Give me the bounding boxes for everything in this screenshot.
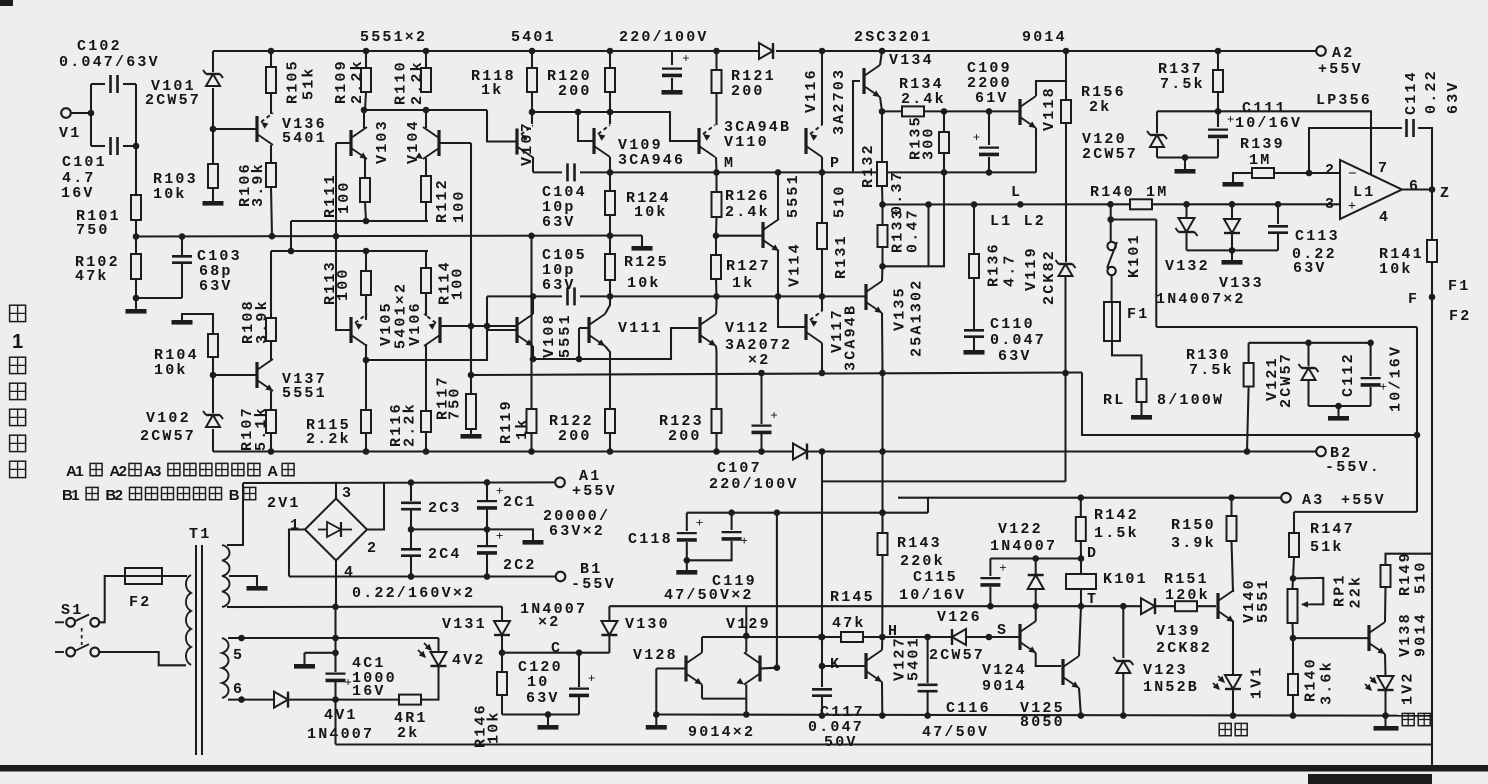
svg-text:R149: R149 <box>1397 551 1414 596</box>
junction 1V2 rail <box>1382 712 1389 719</box>
wire y497 corner <box>898 498 928 513</box>
svg-text:V112: V112 <box>725 320 770 337</box>
wire C103 bottom lead <box>181 263 183 298</box>
svg-text:+: + <box>496 528 503 543</box>
junction V108 emitter <box>530 356 537 363</box>
wire F1 to RL <box>1112 341 1142 379</box>
wire C118 bottom lead <box>686 542 688 560</box>
wire V103 base riser <box>336 143 350 330</box>
transistor V129 <box>737 653 761 685</box>
wire V122 bottom lead <box>1035 589 1037 606</box>
junction V114 emitter <box>775 293 782 300</box>
label R131 <box>833 234 850 279</box>
junction 2C2 bottom <box>484 573 491 580</box>
capacitor C103 <box>172 256 192 262</box>
label R106 <box>237 162 254 207</box>
svg-text:+: + <box>1379 379 1386 394</box>
wire R137 bottom <box>1217 92 1219 111</box>
svg-text:V138: V138 <box>1397 612 1414 657</box>
label pin6 <box>233 681 244 698</box>
label 2C2 <box>503 557 537 574</box>
wire R115 top <box>365 360 367 410</box>
label 2C4 <box>428 546 462 563</box>
label 63V C105 <box>542 277 576 294</box>
wire pin6 right <box>288 699 336 701</box>
label 2C3 <box>428 500 462 517</box>
label 9014x2 <box>688 724 755 741</box>
wire R117 gnd lead <box>470 429 472 434</box>
capacitor C119 <box>722 532 748 548</box>
junction V133 bottom <box>1229 247 1236 254</box>
terminal B2 <box>1316 447 1326 457</box>
label 2.4k R126 <box>725 204 770 221</box>
wire sub gnd stem <box>1337 406 1339 416</box>
switch S1 contact b1 <box>66 648 75 657</box>
junction K101coil top <box>1078 555 1085 562</box>
transistor V140 <box>1218 590 1234 622</box>
label H <box>888 623 899 640</box>
wire RP1 wiper loop <box>1293 578 1323 605</box>
resistor R139 <box>1252 168 1274 178</box>
junction V1 node <box>88 110 95 117</box>
svg-text:2k: 2k <box>397 725 419 742</box>
svg-text:R125: R125 <box>624 254 669 271</box>
junction x578 y112 <box>575 109 582 116</box>
wire V106 collector <box>425 293 427 316</box>
label 8/100W <box>1157 392 1224 409</box>
coil T1 secondary lower <box>222 638 229 698</box>
svg-text:V129: V129 <box>726 616 771 633</box>
label 5401 top <box>511 29 556 46</box>
label 47k <box>75 268 109 285</box>
label 63V C113 <box>1293 260 1327 277</box>
capacitor 2C4 <box>401 549 421 555</box>
resistor R114 <box>421 268 431 293</box>
svg-text:LP356: LP356 <box>1316 92 1372 109</box>
svg-text:2CK82: 2CK82 <box>1041 249 1058 305</box>
svg-text:V132: V132 <box>1165 258 1210 275</box>
label R105 <box>285 59 302 104</box>
wire base node to V137 <box>213 374 256 376</box>
svg-text:−: − <box>1348 166 1357 182</box>
resistor R122 <box>605 409 615 433</box>
wire V128 base <box>656 667 685 669</box>
svg-text:RL: RL <box>1103 392 1125 409</box>
junction x882 B rail <box>879 448 886 455</box>
svg-text:V1: V1 <box>59 125 81 142</box>
junction V121 top <box>1305 340 1312 347</box>
junction C116 rail <box>924 712 931 719</box>
resistor R106 <box>266 163 276 187</box>
svg-text:120k: 120k <box>1165 587 1210 604</box>
label 2CW57 V121 <box>1278 352 1295 408</box>
wire V114 collector riser <box>777 172 779 219</box>
junction V108 collector <box>530 293 537 300</box>
wire V105 collector <box>365 295 367 316</box>
wire diode bus y250 <box>1187 249 1279 251</box>
label pin2 2V1 <box>367 540 378 557</box>
label V131 <box>442 616 487 633</box>
fuse F2 <box>125 568 162 584</box>
svg-text:V108: V108 <box>541 313 558 358</box>
svg-text:2.2k: 2.2k <box>349 59 366 104</box>
label V136 <box>282 116 327 133</box>
junction gnd C120 <box>545 711 552 718</box>
junction R115 B rail <box>363 448 370 455</box>
svg-text:R139: R139 <box>1240 136 1285 153</box>
wire sec bus y607 <box>243 606 502 608</box>
label Z <box>1440 185 1451 202</box>
junction 2C1 top <box>484 479 491 486</box>
wire R147 feed <box>1294 511 1417 513</box>
wire V111 emitter <box>605 346 610 409</box>
svg-text:V106: V106 <box>407 301 424 346</box>
wire 2C4 top lead <box>410 529 412 548</box>
label V112 <box>725 320 770 337</box>
label V106 <box>407 301 424 346</box>
svg-text:2V1: 2V1 <box>267 495 301 512</box>
junction fb R119 <box>528 233 535 240</box>
wire F vertical lower <box>1431 554 1433 765</box>
wire x822 long vertical <box>821 452 823 688</box>
capacitor C102 <box>111 75 118 93</box>
wire x335 seg3 <box>334 700 336 745</box>
label x2 V131 <box>538 614 560 631</box>
svg-text:51k: 51k <box>1310 539 1344 556</box>
label 8050 V125 <box>1020 714 1065 731</box>
label F1 net <box>1448 278 1470 295</box>
label L1 opamp <box>1353 184 1375 201</box>
resistor R133 <box>878 225 888 247</box>
capacitor C120 <box>569 671 595 696</box>
wire V137 emitter to R107 <box>270 391 272 410</box>
wire V127 emitter <box>881 682 883 716</box>
junction 2C4 bottom <box>408 573 415 580</box>
svg-text:L1 L2: L1 L2 <box>990 213 1046 230</box>
junction R121 rail <box>713 48 720 55</box>
svg-text:R151: R151 <box>1164 571 1209 588</box>
wire V108 base bus <box>487 329 516 331</box>
zener V120 <box>1147 131 1167 147</box>
svg-text:+: + <box>696 515 703 530</box>
wire R147 bottom lead <box>1293 557 1294 578</box>
junction V134 emitter <box>879 108 886 115</box>
label V135 <box>892 286 909 331</box>
wire V129 base <box>761 667 777 670</box>
junction V129 base <box>774 664 781 671</box>
label F2 net <box>1449 308 1471 325</box>
svg-text:R145: R145 <box>830 589 875 606</box>
label +55V A3 <box>1341 492 1386 509</box>
wire L bus <box>883 203 1131 205</box>
wire H bus left <box>821 636 841 638</box>
label 4V1 <box>324 707 358 724</box>
transistor V105 <box>351 314 367 346</box>
junction V111 base riser <box>576 356 583 363</box>
diode V133 <box>1224 219 1240 233</box>
junction x471 rail <box>468 372 475 379</box>
capacitor 4C1 <box>326 674 352 690</box>
junction x777 top <box>774 509 781 516</box>
label 1N4007 4V1 <box>307 726 374 743</box>
wire top +55V rail left segment <box>213 50 759 52</box>
op-amp L1 <box>1340 160 1402 219</box>
wire 2C3 top lead <box>410 483 412 501</box>
svg-text:5551: 5551 <box>1255 578 1272 623</box>
wire S1b to primary <box>99 652 186 665</box>
label RL <box>1103 392 1125 409</box>
wire C101/C102 left vertical <box>90 84 92 146</box>
ground V128 <box>646 725 667 730</box>
wire bus y172 left <box>533 171 562 173</box>
svg-text:+55V: +55V <box>572 483 617 500</box>
label T <box>1087 591 1098 608</box>
zener V101 <box>203 70 223 86</box>
light arrows 4V2 <box>418 643 432 658</box>
label 2CW57 V126 <box>929 647 985 664</box>
label 10k R124 <box>634 204 668 221</box>
svg-text:47/50V×2: 47/50V×2 <box>664 587 754 604</box>
label 10/16V C112 <box>1388 345 1405 412</box>
label 4C1 <box>352 655 386 672</box>
coil T1 secondary upper <box>222 545 230 607</box>
junction y251 link <box>288 248 295 255</box>
svg-text:V103: V103 <box>374 119 391 164</box>
junction base bus x487 <box>484 323 491 330</box>
junction V120 gnd node <box>1182 154 1189 161</box>
svg-text:200: 200 <box>558 428 592 445</box>
label 200 R121 <box>731 83 765 100</box>
junction mid node right <box>484 526 491 533</box>
junction fb R106 <box>269 233 276 240</box>
label 120k R151 <box>1165 587 1210 604</box>
label 1k R118 <box>481 82 503 99</box>
capacitor C115 <box>980 560 1006 585</box>
label V132 <box>1165 258 1210 275</box>
wire R141 to F <box>1431 262 1433 297</box>
label 63V C120 <box>526 690 560 707</box>
resistor R130 <box>1244 363 1254 387</box>
resistor R156 <box>1061 100 1071 123</box>
junction C116 top <box>924 634 931 641</box>
label 51k <box>301 66 318 100</box>
svg-text:2.2k: 2.2k <box>306 431 351 448</box>
ground 1V2 <box>1374 726 1399 731</box>
svg-text:47k: 47k <box>832 615 866 632</box>
wire bridge pin4 drop <box>335 561 337 608</box>
label V110 <box>724 134 769 151</box>
svg-text:5401: 5401 <box>282 130 327 147</box>
svg-text:R136: R136 <box>986 242 1003 287</box>
svg-text:5: 5 <box>233 647 244 664</box>
svg-text:+: + <box>344 674 351 689</box>
label 0.22 C114 <box>1423 69 1440 114</box>
wire R133 top lead <box>881 205 883 226</box>
wire C120 bottom lead <box>578 697 580 715</box>
zener V121 <box>1299 364 1319 380</box>
wire R139 right lead <box>1274 172 1309 174</box>
label 5.1k <box>253 406 270 451</box>
capacitor C109 <box>973 130 999 155</box>
wire R126 bottom <box>715 217 718 236</box>
label R124 <box>626 190 671 207</box>
ground C120 <box>538 725 559 730</box>
label C104 <box>542 184 587 201</box>
label V117 <box>829 308 846 353</box>
label 10k R141 <box>1379 261 1413 278</box>
svg-text:2: 2 <box>115 487 123 504</box>
svg-text:+: + <box>588 671 595 686</box>
resistor R137 <box>1213 70 1223 92</box>
svg-text:F2: F2 <box>129 594 151 611</box>
label B2 <box>1330 445 1352 462</box>
wire R143 bottom lead <box>881 555 883 637</box>
capacitor C110 <box>964 330 984 336</box>
wire R156 top <box>1065 51 1067 100</box>
svg-text:V119: V119 <box>1023 246 1040 291</box>
label C109 <box>967 60 1012 77</box>
svg-text:Z: Z <box>1440 185 1451 202</box>
svg-text:0.22: 0.22 <box>1423 69 1440 114</box>
wire C116 top lead <box>927 637 929 683</box>
svg-text:9014: 9014 <box>982 678 1027 695</box>
svg-text:4: 4 <box>1379 209 1390 226</box>
label C107 <box>717 460 762 477</box>
wire R126 top <box>715 172 717 192</box>
wire x1065 lower <box>1064 276 1066 373</box>
transistor V135 <box>866 281 882 313</box>
resistor R134 <box>902 106 924 116</box>
wire gnd stem x304 <box>303 653 305 664</box>
switch S1 link dashed <box>81 628 83 645</box>
wire RP1 bottom lead <box>1291 623 1294 638</box>
wire C120 bus bottom <box>502 713 579 715</box>
junction 1V1 rail <box>1230 712 1237 719</box>
resistor R140 <box>1130 199 1152 209</box>
svg-text:63V: 63V <box>526 690 560 707</box>
wire R116 top <box>425 360 427 411</box>
junction C109 bottom <box>986 169 993 176</box>
svg-text:A: A <box>267 463 278 480</box>
svg-text:10k: 10k <box>627 275 661 292</box>
wire R147 top lead <box>1293 512 1295 533</box>
wire gnd node to C103 bottom <box>136 297 182 299</box>
junction R127/V112 <box>713 293 720 300</box>
wire right vertical C102-C101 <box>135 84 137 146</box>
wire V134 collector <box>880 51 882 65</box>
wire C102 top left <box>91 83 105 85</box>
wire R114 to V106 <box>425 293 427 316</box>
wire R132 bottom <box>881 186 884 205</box>
ground V120 <box>1175 169 1196 174</box>
wire R115 bottom <box>365 433 367 452</box>
junction V116 emitter P <box>819 169 826 176</box>
wire V128 emitter <box>701 685 703 699</box>
svg-text:1N52B: 1N52B <box>1143 679 1199 696</box>
label 0.37 <box>889 170 906 215</box>
resistor R103 <box>208 164 218 188</box>
label 100 R111 <box>336 180 353 214</box>
junction K101coil bottom <box>1078 603 1085 610</box>
svg-text:F2: F2 <box>1449 308 1471 325</box>
terminal A3 <box>1281 493 1291 503</box>
wire A wire y481 <box>822 480 1066 482</box>
wire V120 top lead <box>1156 111 1158 133</box>
wire R130 top lead <box>1248 343 1250 363</box>
wire V102 to B rail <box>212 429 214 452</box>
wire R142 top lead <box>1080 498 1082 517</box>
junction x532 y112 <box>529 109 536 116</box>
svg-text:1V2: 1V2 <box>1400 671 1417 705</box>
wire V101 to base node <box>212 88 214 129</box>
junction C109 top <box>986 108 993 115</box>
junction V125 rail <box>1078 712 1085 719</box>
light arrows 1V2 <box>1365 677 1377 691</box>
switch S1 stub b <box>55 651 64 653</box>
junction V114 collector <box>775 169 782 176</box>
junction pin2 node <box>1306 170 1313 177</box>
label R141 <box>1379 246 1424 263</box>
capacitor C106 <box>662 51 690 76</box>
resistor R109 <box>361 68 371 92</box>
wire R130 bottom lead <box>1247 387 1249 452</box>
switch K101 arm <box>1107 242 1117 268</box>
wire V110 emitter <box>715 157 718 172</box>
wire V140 emitter <box>1232 622 1234 675</box>
svg-text:V139: V139 <box>1156 623 1201 640</box>
ground feedback bus <box>632 246 653 251</box>
svg-text:C118: C118 <box>628 531 673 548</box>
svg-text:3: 3 <box>153 463 161 480</box>
wire RL gnd lead <box>1140 402 1142 415</box>
wire R135 leads <box>943 111 945 132</box>
label R126 <box>725 188 770 205</box>
wire R116 bottom <box>425 432 427 452</box>
svg-text:0.47: 0.47 <box>905 208 922 253</box>
label 2V1 <box>267 495 301 512</box>
label 68p <box>199 263 233 280</box>
label R102 <box>75 254 120 271</box>
label V116 <box>803 68 820 113</box>
resistor R116 <box>421 411 431 432</box>
wire drive bus y606 <box>609 605 1141 607</box>
wire V107 emitter <box>532 157 534 172</box>
junction R133 top <box>879 201 886 208</box>
svg-text:R126: R126 <box>725 188 770 205</box>
wire gnd to R104 top <box>182 314 213 334</box>
wire V120 bottom lead <box>1156 147 1158 158</box>
wire 1V1 bottom <box>1232 690 1234 716</box>
transistor V110 <box>699 125 715 157</box>
label V122 <box>998 521 1043 538</box>
svg-text:1N4007: 1N4007 <box>307 726 374 743</box>
svg-text:7.5k: 7.5k <box>1160 76 1205 93</box>
scan topleft mark <box>0 0 13 6</box>
label 5551x2 <box>360 29 427 46</box>
label F1 fuse <box>1127 306 1149 323</box>
wire R105 to rail <box>270 51 272 67</box>
svg-text:S1: S1 <box>61 602 83 619</box>
wire 2C2 bottom lead <box>486 554 488 577</box>
label C120 <box>518 659 563 676</box>
label L node <box>1011 184 1022 201</box>
junction R111 bottom <box>363 218 370 225</box>
junction C119 top <box>728 509 735 516</box>
svg-text:3.9k: 3.9k <box>250 162 267 207</box>
junction pair H <box>818 634 825 641</box>
wire R132 top <box>881 111 883 162</box>
transistor V107 <box>517 126 533 158</box>
